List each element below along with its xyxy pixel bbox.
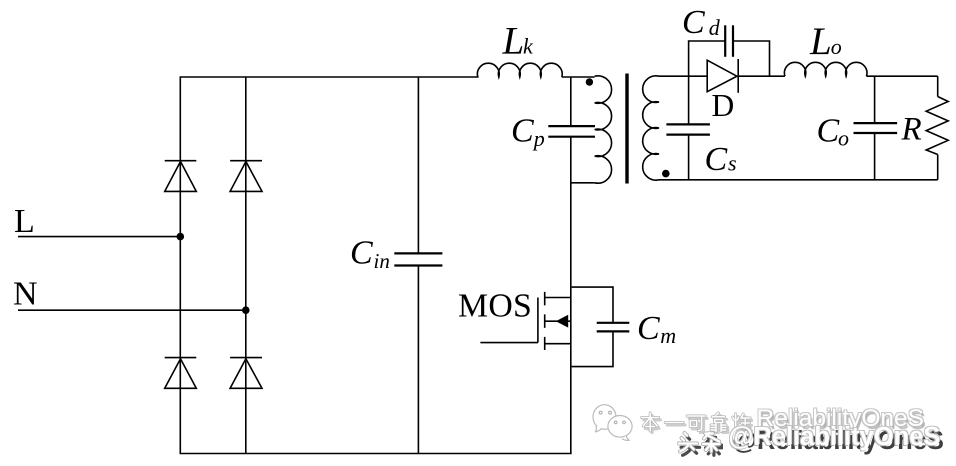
svg-text:m: m (660, 323, 676, 348)
wire drain/source main vertical (570, 183, 572, 454)
capacitor Cin (394, 77, 442, 454)
wire left bridge leg vertical (179, 77, 181, 454)
gate lead (480, 342, 538, 344)
svg-text:R: R (901, 112, 922, 148)
capacitor Cs (666, 76, 710, 180)
wire right bridge leg vertical (245, 77, 247, 454)
capacitor Cp (548, 77, 595, 183)
svg-text:D: D (712, 88, 735, 123)
watermark text line 1: CJK glyphs drawn as vectors (639, 411, 753, 434)
resistor R (926, 76, 948, 180)
svg-text:MOS: MOS (458, 288, 532, 325)
polarity dot primary (586, 78, 593, 85)
node L junction dot (177, 233, 185, 241)
MOSFET MOS symbol (480, 292, 570, 350)
diode D4 bottom-right bridge (230, 358, 262, 389)
watermark text line 2: CJK glyphs drawn as vectors (677, 431, 723, 457)
svg-text:C: C (511, 112, 534, 149)
svg-text:C: C (682, 4, 705, 41)
diode D2 top-right bridge (230, 161, 262, 192)
wire Lo to right corner (867, 75, 938, 77)
transformer T1 secondary winding (643, 76, 659, 180)
channel dashed segments (544, 292, 546, 350)
polarity dot secondary (662, 170, 670, 178)
diode D3 bottom-left bridge (165, 358, 197, 389)
source stub (545, 343, 571, 345)
svg-text:s: s (728, 150, 737, 175)
diode D (707, 59, 738, 93)
svg-text:C: C (350, 235, 373, 272)
node N junction dot (242, 306, 250, 314)
svg-text:C: C (817, 113, 840, 150)
wire Lk to transformer (562, 76, 595, 78)
wire secondary top rail to diode (659, 75, 707, 77)
svg-text:L: L (502, 20, 525, 63)
svg-text:o: o (838, 126, 849, 151)
transformer core bar (625, 74, 628, 184)
svg-text:p: p (532, 126, 545, 151)
watermark latin text line 2 (729, 425, 941, 449)
wire bottom bus (180, 453, 572, 455)
inductor Lo (784, 62, 867, 76)
svg-text:L: L (14, 203, 35, 240)
svg-text:L: L (809, 20, 832, 63)
watermark wechat icon (586, 400, 640, 450)
wire primary bottom link (571, 182, 595, 184)
svg-text:o: o (831, 34, 842, 59)
watermark latin text line 1 (757, 407, 925, 430)
svg-text:N: N (13, 276, 38, 313)
wire bottom right rail (659, 179, 938, 181)
wire diode to Lo (738, 75, 785, 77)
drain stub (545, 297, 571, 299)
transformer T1 primary winding (595, 76, 612, 183)
svg-text:C: C (705, 141, 728, 178)
wire L input line (18, 236, 180, 238)
gate bar (537, 298, 539, 343)
inductor Lk (477, 63, 562, 77)
MOS body arrow (556, 315, 568, 328)
svg-text:k: k (523, 34, 534, 59)
capacitor Cm loop (572, 287, 630, 367)
svg-text:in: in (374, 249, 390, 273)
body stub with arrow (545, 320, 571, 322)
svg-text:C: C (637, 310, 660, 347)
capacitor Co (854, 76, 898, 180)
wire top bus (180, 76, 479, 78)
diode D1 top-left bridge (165, 161, 197, 192)
svg-text:d: d (709, 15, 721, 40)
capacitor Cd loop (689, 25, 770, 76)
wire N input line (18, 309, 246, 311)
